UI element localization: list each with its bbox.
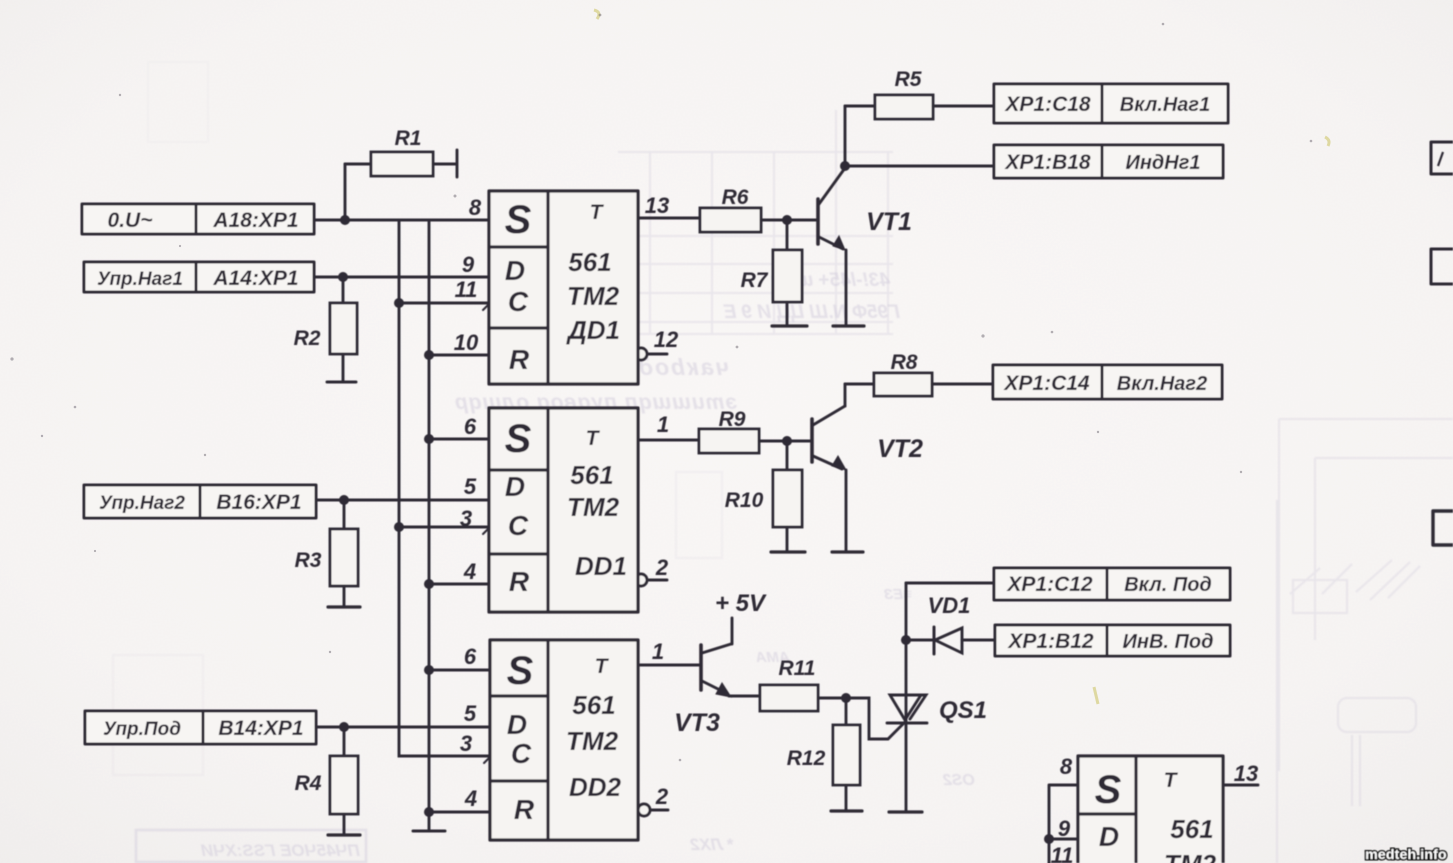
svg-text:R: R <box>509 566 530 597</box>
inverted output pin12 circle DD1.1 <box>635 348 647 360</box>
inverted output pin2 circle DD2 <box>638 804 650 816</box>
bus B vertical (pins 10,6,4) <box>428 220 431 830</box>
bleed right side frame <box>1279 419 1453 771</box>
svg-text:Упр.Наг1: Упр.Наг1 <box>97 269 183 290</box>
small yellow stray marks <box>594 10 1329 704</box>
wire R1 drop to node <box>344 164 347 220</box>
wire net pin8 (row1 box to DD1.1 S input) <box>314 219 489 222</box>
wire gate step to QS1 <box>846 698 905 739</box>
resistor R1 <box>345 150 457 177</box>
connector box XP1:C14 / Vkl.Nag2 <box>993 365 1222 399</box>
svg-text:ХР1:С12: ХР1:С12 <box>1006 573 1093 596</box>
wire pin11 branch <box>399 302 489 305</box>
svg-text:VD1: VD1 <box>928 593 971 618</box>
svg-text:ТМ2: ТМ2 <box>566 726 619 756</box>
svg-text:T: T <box>595 655 610 678</box>
svg-text:ОS2: ОS2 <box>943 772 975 789</box>
resistor R8 <box>845 373 993 396</box>
svg-text:ТМ2: ТМ2 <box>1164 849 1217 863</box>
wire pin10 branch <box>429 354 489 357</box>
ground bar under QS1 <box>889 810 922 813</box>
svg-text:medteh.info: medteh.info <box>1365 846 1447 862</box>
svg-text:D: D <box>505 471 525 502</box>
svg-text:ХР1:С18: ХР1:С18 <box>1004 93 1091 116</box>
wire pin2 stub <box>648 579 667 582</box>
node junction R1/pin8 <box>340 215 350 225</box>
ground bar under VT1 emitter <box>833 324 864 327</box>
svg-text:R3: R3 <box>295 549 322 572</box>
node on bus B at pin10 <box>424 350 434 360</box>
svg-text:+ 5V: + 5V <box>715 590 767 617</box>
svg-text:R9: R9 <box>719 408 746 431</box>
trigger DD3 (561) body bottom right, cut by page edge <box>1078 756 1223 863</box>
node junction R11/R12/gate <box>841 693 851 703</box>
svg-text:VT2: VT2 <box>877 435 923 463</box>
trigger DD1.1 (561 TM2) body <box>489 191 638 384</box>
svg-text:561: 561 <box>570 460 613 490</box>
transistor VT2 <box>812 384 846 551</box>
ground bar under R7 <box>772 324 807 327</box>
svg-text:ДD1: ДD1 <box>566 315 620 345</box>
small glyph inside top fragment <box>1438 152 1443 166</box>
box fragment right edge mid <box>1431 249 1453 284</box>
node junction collector / XP1:B18 line <box>840 161 850 171</box>
connector box Upr.Nag1 / A14:XP1 <box>84 262 314 292</box>
resistor R11 <box>760 685 818 711</box>
resistor R2 <box>327 277 357 382</box>
svg-text:13: 13 <box>645 193 669 218</box>
svg-text:D: D <box>507 709 527 740</box>
diode VD1 <box>906 627 995 654</box>
resistor R5 <box>845 95 994 119</box>
dynamic input slash DD1.1 C <box>483 296 497 310</box>
bus A vertical (pins 11 / C inputs) <box>399 220 489 756</box>
scan specks <box>10 14 1312 762</box>
wire to XP1:B18 <box>845 165 994 168</box>
svg-text:0.U~: 0.U~ <box>108 209 153 232</box>
connector box 0.U~ / A18:XP1 <box>82 204 314 234</box>
svg-text:5: 5 <box>464 474 477 499</box>
node on bus B at DD2 pin4 <box>424 807 434 817</box>
resistor R7 <box>773 220 802 324</box>
svg-text:DD2: DD2 <box>569 772 622 802</box>
svg-text:D: D <box>505 255 525 286</box>
dynamic input slash DD1.2 C <box>483 520 497 534</box>
svg-text:VT1: VT1 <box>866 208 912 236</box>
svg-text:R2: R2 <box>294 327 321 350</box>
wire R6 to VT1 base <box>761 219 816 222</box>
ground bar under R12 <box>831 809 862 812</box>
svg-text:11: 11 <box>455 277 478 302</box>
bus B end bar <box>413 830 445 833</box>
dynamic input slash DD2 C <box>484 749 498 763</box>
wire net pin9 (row2 box to DD1.1 D) <box>314 276 489 279</box>
svg-text:S: S <box>505 198 532 242</box>
bleed capacitor ghosts near +5V <box>549 467 607 543</box>
wire pin6 branch DD1.2 <box>429 438 489 441</box>
svg-text:1: 1 <box>652 639 664 664</box>
ground bar under VT2 emitter <box>832 550 863 553</box>
svg-text:A14:ХР1: A14:ХР1 <box>212 267 298 290</box>
svg-text:R10: R10 <box>725 489 764 512</box>
svg-text:T: T <box>1164 769 1179 792</box>
svg-text:ИндНг1: ИндНг1 <box>1125 152 1200 174</box>
svg-text:C: C <box>508 286 529 317</box>
wire pin3 branch DD1.2 <box>399 526 489 529</box>
svg-text:Упр.Наг2: Упр.Наг2 <box>99 493 185 514</box>
svg-text:561: 561 <box>572 690 615 720</box>
node junction R9/R10/base <box>782 436 792 446</box>
node on drop at DD3 pin9 <box>1044 834 1054 844</box>
svg-text:* ЛХ2: * ЛХ2 <box>690 835 734 854</box>
svg-text:Вкл. Под: Вкл. Под <box>1124 574 1212 596</box>
svg-text:≡ЕЗ: ≡ЕЗ <box>883 586 912 603</box>
node on bus A at pin11 <box>394 298 404 308</box>
trigger DD1.2 (561 TM2) body <box>489 408 638 612</box>
node junction R4/pin5 <box>339 722 349 732</box>
wire DD3 pin13 stub <box>1223 784 1258 787</box>
svg-text:R11: R11 <box>779 657 816 680</box>
svg-text:ХР1:В12: ХР1:В12 <box>1007 630 1094 653</box>
connector box XP1:B18 / IndNg1 <box>994 145 1223 178</box>
svg-text:9: 9 <box>462 252 475 277</box>
svg-text:2: 2 <box>655 555 669 580</box>
svg-text:2: 2 <box>655 784 669 809</box>
bleed table grid top middle <box>618 152 893 334</box>
resistor R3 <box>328 500 360 607</box>
svg-text:9: 9 <box>1058 816 1071 841</box>
connector box Upr.Pod / B14:XP1 <box>85 711 316 744</box>
node on bus B at pin4 <box>424 579 434 589</box>
bleed mirrored handwriting <box>200 270 975 860</box>
wire net row3 box to DD1.2 D (pin5) <box>316 499 489 502</box>
svg-text:Г95Ф N.Ш ЦЦ И 9 Е: Г95Ф N.Ш ЦЦ И 9 Е <box>722 302 900 323</box>
node on bus B at DD2 pin6 <box>424 665 434 675</box>
box fragment right edge top <box>1431 142 1453 174</box>
svg-text:4: 4 <box>464 786 477 811</box>
wire R9 to VT2 base <box>759 440 810 443</box>
svg-text:R1: R1 <box>395 127 422 150</box>
svg-text:S: S <box>507 649 534 693</box>
svg-text:ТМ2: ТМ2 <box>567 492 620 522</box>
svg-text:В16:ХР1: В16:ХР1 <box>216 491 301 514</box>
svg-text:ИнВ. Под: ИнВ. Под <box>1123 631 1214 653</box>
wire DD2 pin2 stub <box>651 809 668 812</box>
svg-text:VT3: VT3 <box>674 709 720 737</box>
svg-text:В14:ХР1: В14:ХР1 <box>218 717 303 740</box>
svg-text:1: 1 <box>657 412 669 437</box>
svg-text:QS1: QS1 <box>939 697 987 724</box>
svg-text:12: 12 <box>654 327 679 352</box>
wire R11 to node <box>818 697 846 700</box>
svg-text:S: S <box>505 417 532 461</box>
svg-text:ХР1:С14: ХР1:С14 <box>1003 372 1090 395</box>
node on bus A at pin3 <box>394 522 404 532</box>
wire net row4 box to DD2 D (pin5) <box>316 726 490 729</box>
connector box XP1:C18 / Vkl.Nag1 <box>994 84 1228 123</box>
bleed faint box bottom-left <box>136 830 366 862</box>
svg-text:10: 10 <box>454 330 479 355</box>
svg-text:R4: R4 <box>295 772 322 795</box>
svg-text:13: 13 <box>1234 761 1258 786</box>
svg-text:R: R <box>509 344 530 375</box>
svg-text:C: C <box>511 738 532 769</box>
svg-text:ПЧ45ЧОЕ ГSS:ХЧИ: ПЧ45ЧОЕ ГSS:ХЧИ <box>200 841 360 860</box>
node junction VD1 anode <box>901 635 911 645</box>
resistor R10 <box>773 441 802 550</box>
connector box XP1:B12 / InV.Pod <box>995 625 1230 656</box>
svg-text:561: 561 <box>568 247 611 277</box>
wire QS1 top to XP1:C12 <box>906 582 994 585</box>
resistor R9 <box>699 429 759 453</box>
svg-text:R8: R8 <box>891 351 918 374</box>
svg-text:3: 3 <box>460 731 472 756</box>
wire pin1 output DD1.2 <box>638 439 699 442</box>
connector box XP1:C12 / Vkl.Pod <box>994 568 1230 600</box>
resistor R12 <box>833 698 860 810</box>
svg-text:C: C <box>508 510 529 541</box>
svg-text:R: R <box>514 794 535 825</box>
ground bar under R10 <box>771 550 805 553</box>
wire pin4 branch DD2 <box>429 811 490 814</box>
node junction R6/R7/base <box>782 215 792 225</box>
svg-text:T: T <box>590 201 605 224</box>
svg-text:DD1: DD1 <box>575 551 627 581</box>
trigger DD2 (561 TM2) body <box>490 640 638 840</box>
svg-text:561: 561 <box>1170 814 1213 844</box>
svg-text:Вкл.Наг2: Вкл.Наг2 <box>1117 373 1207 395</box>
box fragment right edge lower <box>1433 511 1453 545</box>
svg-text:R12: R12 <box>787 747 826 770</box>
svg-text:Упр.Под: Упр.Под <box>103 719 181 740</box>
svg-text:3: 3 <box>460 506 472 531</box>
resistor R6 <box>700 208 761 232</box>
svg-text:8: 8 <box>469 195 482 220</box>
wire DD3 pin8 drop <box>1049 785 1078 863</box>
connector box Upr.Nag2 / B16:XP1 <box>84 485 316 518</box>
svg-text:R7: R7 <box>741 269 769 292</box>
svg-text:A18:ХР1: A18:ХР1 <box>212 209 298 232</box>
wire pin13 output DD1.1 <box>638 217 700 220</box>
svg-text:R6: R6 <box>722 186 749 209</box>
wire VT3 emitter to R11 <box>729 695 760 698</box>
transistor VT1 <box>818 106 846 325</box>
wire pin4 branch DD1.2 <box>429 583 489 586</box>
svg-text:6: 6 <box>464 414 477 439</box>
svg-text:R5: R5 <box>895 68 922 91</box>
node junction R2/pin9 <box>338 272 348 282</box>
wire pin1 output DD2 to VT3 base <box>640 664 699 667</box>
node on bus B at pin6 <box>424 434 434 444</box>
inverted output pin2 circle DD1.2 <box>635 574 647 586</box>
svg-text:8: 8 <box>1060 754 1073 779</box>
wire pin6 branch DD2 <box>429 669 490 672</box>
svg-text:4: 4 <box>463 559 476 584</box>
svg-text:D: D <box>1099 821 1119 852</box>
svg-text:ТМ2: ТМ2 <box>567 281 620 311</box>
node junction R3/pin5 <box>339 495 349 505</box>
svg-text:T: T <box>586 427 601 450</box>
svg-text:6: 6 <box>464 644 477 669</box>
triac QS1 <box>887 583 927 811</box>
wire DD3 pin9 branch <box>1049 838 1078 841</box>
svg-text:ХР1:В18: ХР1:В18 <box>1004 151 1091 174</box>
resistor R4 <box>328 727 360 835</box>
svg-text:S: S <box>1095 768 1122 812</box>
svg-text:5: 5 <box>464 701 477 726</box>
wire pin12 stub <box>648 353 667 356</box>
transistor VT3 <box>701 618 732 697</box>
svg-text:Вкл.Наг1: Вкл.Наг1 <box>1120 94 1210 116</box>
svg-text:11: 11 <box>1051 843 1074 863</box>
